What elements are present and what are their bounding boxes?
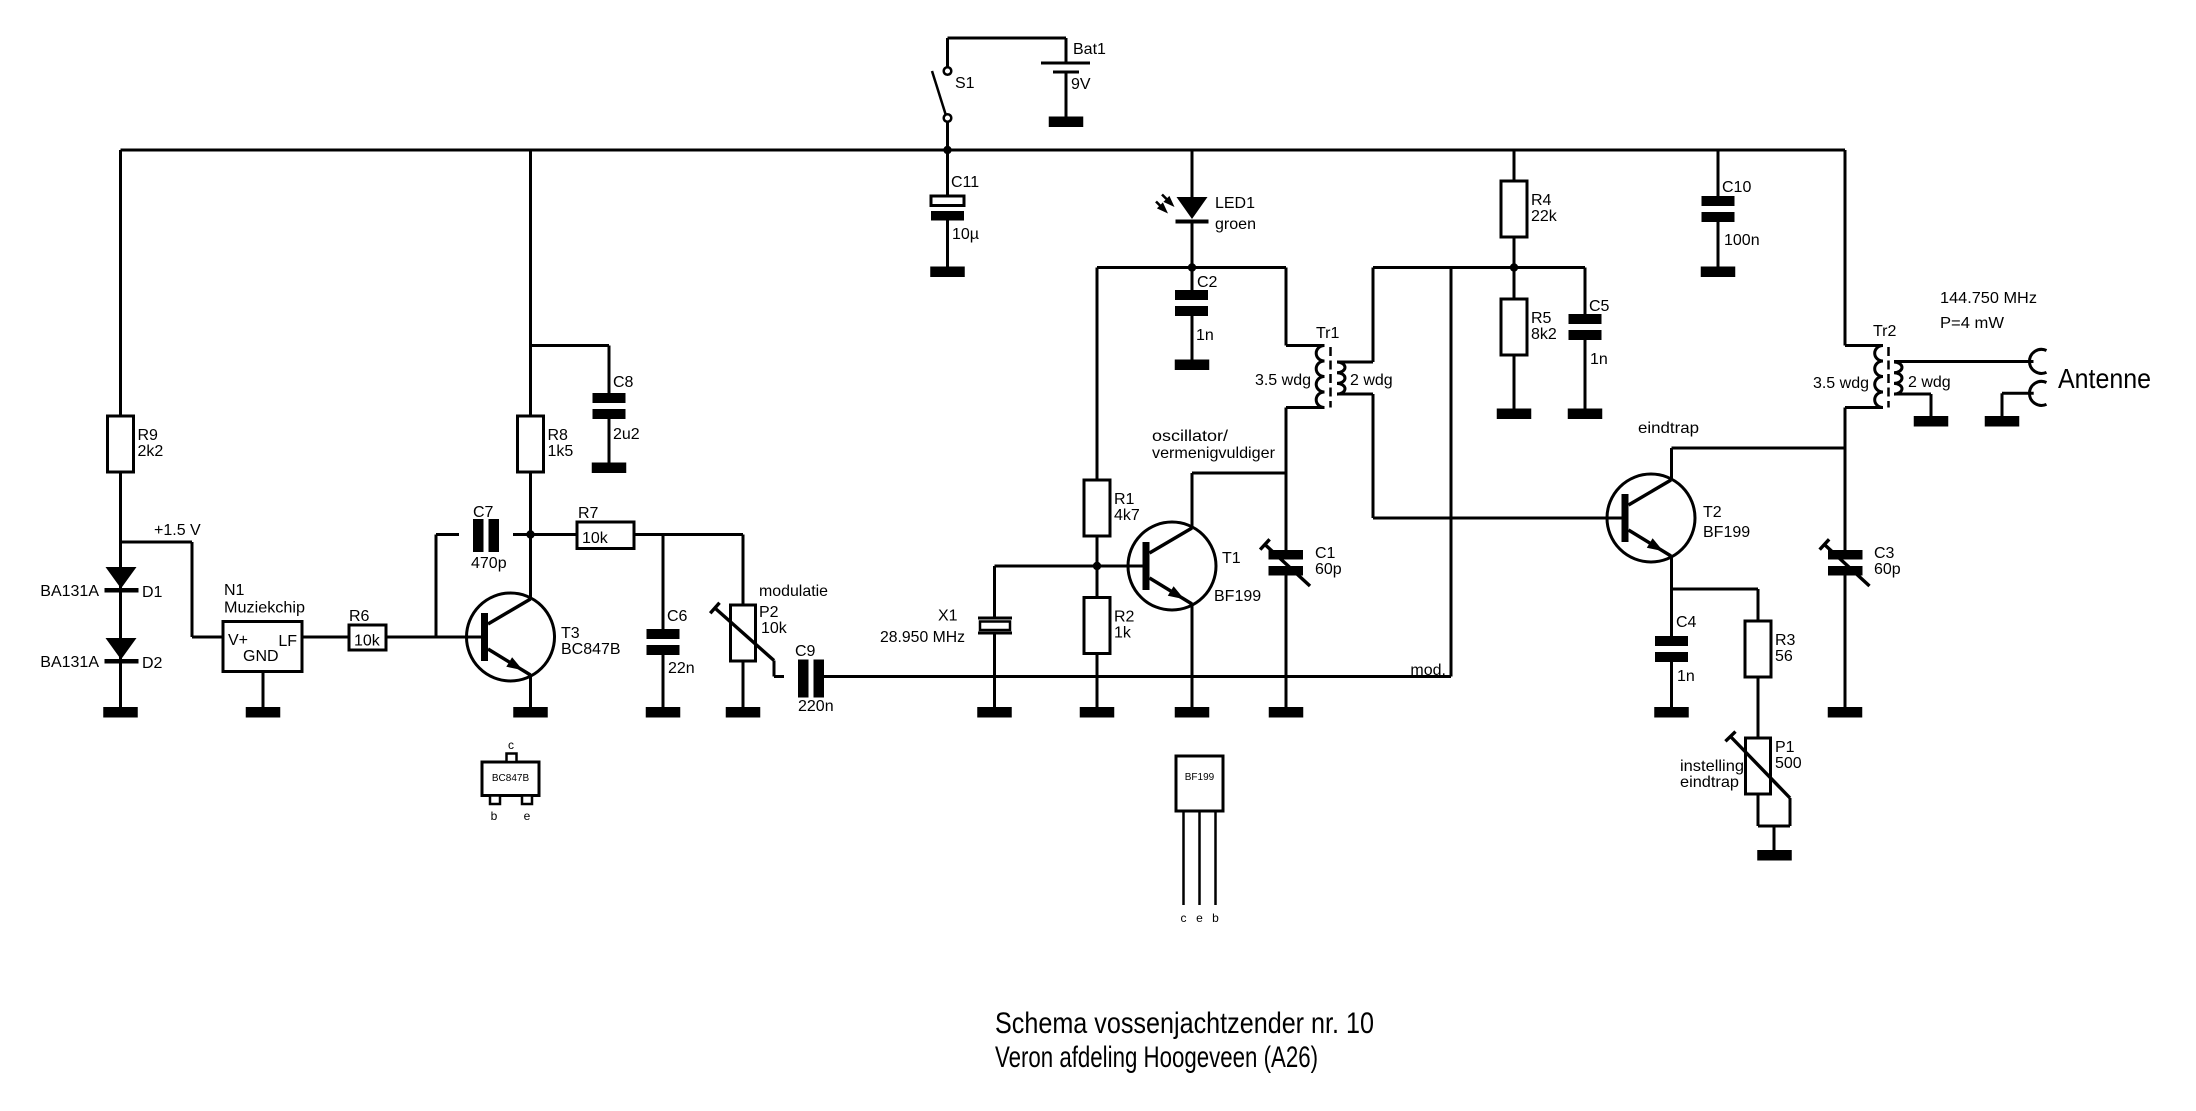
svg-text:470p: 470p — [471, 555, 507, 572]
svg-text:oscillator/: oscillator/ — [1152, 428, 1229, 445]
svg-text:groen: groen — [1215, 216, 1256, 233]
svg-text:BA131A: BA131A — [40, 583, 99, 600]
svg-text:C9: C9 — [795, 643, 816, 660]
svg-text:R1: R1 — [1114, 491, 1135, 508]
svg-text:C11: C11 — [951, 174, 979, 191]
svg-text:3.5 wdg: 3.5 wdg — [1813, 375, 1869, 392]
svg-text:b: b — [1212, 911, 1219, 925]
svg-text:R8: R8 — [548, 427, 569, 444]
svg-text:instelling: instelling — [1680, 758, 1744, 775]
svg-text:C6: C6 — [667, 608, 688, 625]
svg-text:2u2: 2u2 — [613, 426, 640, 443]
svg-text:1n: 1n — [1590, 351, 1608, 368]
svg-text:2 wdg: 2 wdg — [1350, 372, 1393, 389]
svg-text:1n: 1n — [1677, 668, 1695, 685]
svg-text:BA131A: BA131A — [40, 654, 99, 671]
svg-text:28.950 MHz: 28.950 MHz — [880, 629, 965, 646]
svg-text:Bat1: Bat1 — [1073, 41, 1106, 58]
svg-text:10µ: 10µ — [952, 226, 979, 243]
svg-text:56: 56 — [1775, 648, 1793, 665]
svg-text:e: e — [1196, 911, 1203, 925]
svg-text:10k: 10k — [354, 633, 381, 650]
svg-text:+1.5 V: +1.5 V — [154, 522, 201, 539]
svg-text:Tr1: Tr1 — [1316, 325, 1340, 342]
svg-text:60p: 60p — [1874, 561, 1901, 578]
svg-text:P1: P1 — [1775, 739, 1795, 756]
svg-text:2k2: 2k2 — [138, 443, 164, 460]
svg-text:R2: R2 — [1114, 609, 1135, 626]
svg-text:T2: T2 — [1703, 504, 1722, 521]
svg-text:10k: 10k — [582, 530, 609, 547]
svg-text:Schema vossenjachtzender nr. 1: Schema vossenjachtzender nr. 10 — [995, 1007, 1374, 1040]
svg-text:c: c — [508, 738, 514, 752]
svg-text:LED1: LED1 — [1215, 195, 1255, 212]
svg-text:C4: C4 — [1676, 614, 1697, 631]
svg-text:Tr2: Tr2 — [1873, 323, 1897, 340]
svg-text:N1: N1 — [224, 582, 245, 599]
svg-text:D2: D2 — [142, 655, 163, 672]
svg-text:GND: GND — [243, 648, 279, 665]
svg-text:220n: 220n — [798, 698, 834, 715]
svg-text:Antenne: Antenne — [2058, 363, 2151, 394]
svg-text:8k2: 8k2 — [1531, 326, 1557, 343]
svg-text:BF199: BF199 — [1703, 524, 1750, 541]
svg-text:C2: C2 — [1197, 274, 1218, 291]
svg-text:22n: 22n — [668, 660, 695, 677]
svg-text:modulatie: modulatie — [759, 583, 828, 600]
svg-text:LF: LF — [278, 633, 297, 650]
svg-text:BC847B: BC847B — [492, 773, 530, 784]
svg-text:10k: 10k — [761, 620, 788, 637]
svg-text:P=4 mW: P=4 mW — [1940, 315, 2005, 332]
svg-text:100n: 100n — [1724, 232, 1760, 249]
svg-text:eindtrap: eindtrap — [1638, 420, 1699, 437]
svg-text:P2: P2 — [759, 604, 779, 621]
svg-text:vermenigvuldiger: vermenigvuldiger — [1152, 445, 1276, 462]
svg-text:500: 500 — [1775, 755, 1802, 772]
svg-text:b: b — [491, 809, 498, 823]
svg-text:S1: S1 — [955, 75, 975, 92]
svg-text:BF199: BF199 — [1214, 588, 1261, 605]
svg-text:1k5: 1k5 — [548, 443, 574, 460]
svg-text:9V: 9V — [1071, 76, 1091, 93]
svg-text:2 wdg: 2 wdg — [1908, 374, 1951, 391]
svg-text:R6: R6 — [349, 608, 370, 625]
svg-text:4k7: 4k7 — [1114, 507, 1140, 524]
svg-text:R7: R7 — [578, 505, 599, 522]
svg-text:e: e — [524, 809, 531, 823]
svg-text:mod.: mod. — [1410, 662, 1446, 679]
svg-text:C5: C5 — [1589, 298, 1610, 315]
svg-text:1n: 1n — [1196, 327, 1214, 344]
svg-text:c: c — [1181, 911, 1187, 925]
svg-text:C10: C10 — [1722, 179, 1751, 196]
svg-text:C8: C8 — [613, 374, 634, 391]
svg-text:R3: R3 — [1775, 632, 1796, 649]
svg-text:144.750 MHz: 144.750 MHz — [1940, 290, 2037, 307]
svg-text:eindtrap: eindtrap — [1680, 774, 1739, 791]
svg-text:BC847B: BC847B — [561, 641, 621, 658]
svg-text:3.5 wdg: 3.5 wdg — [1255, 372, 1311, 389]
svg-text:1k: 1k — [1114, 625, 1132, 642]
svg-text:R4: R4 — [1531, 192, 1552, 209]
svg-text:C7: C7 — [473, 504, 494, 521]
svg-text:BF199: BF199 — [1185, 772, 1215, 783]
svg-text:22k: 22k — [1531, 208, 1558, 225]
svg-text:C1: C1 — [1315, 545, 1336, 562]
svg-text:Muziekchip: Muziekchip — [224, 600, 305, 617]
svg-text:R9: R9 — [138, 427, 159, 444]
svg-text:X1: X1 — [938, 608, 958, 625]
svg-text:Veron afdeling Hoogeveen (A26): Veron afdeling Hoogeveen (A26) — [995, 1041, 1318, 1074]
svg-text:V+: V+ — [228, 632, 248, 649]
svg-text:T1: T1 — [1222, 550, 1241, 567]
svg-text:D1: D1 — [142, 584, 163, 601]
svg-text:R5: R5 — [1531, 310, 1552, 327]
svg-text:60p: 60p — [1315, 561, 1342, 578]
svg-text:C3: C3 — [1874, 545, 1895, 562]
svg-text:T3: T3 — [561, 625, 580, 642]
